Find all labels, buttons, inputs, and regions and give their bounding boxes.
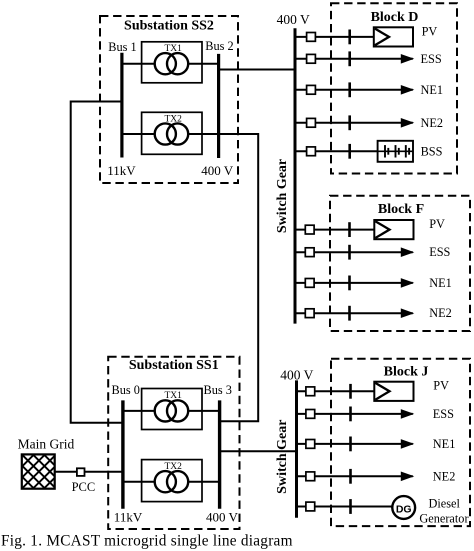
svg-text:Generator: Generator — [419, 512, 468, 526]
bus switchgear for Blocks D and F — [294, 28, 297, 323]
svg-text:PV: PV — [433, 379, 449, 393]
disconnect tick on feeder BSS — [348, 144, 351, 159]
wire Bus 3 to switchgear bus (Block J) — [220, 450, 297, 452]
bus Bus 0 — [121, 400, 124, 508]
diesel generator DG symbol — [392, 496, 415, 519]
load arrow NE1 — [401, 440, 413, 448]
bus Bus 3 — [218, 400, 221, 508]
PV source symbol — [374, 382, 413, 401]
load arrow NE1 — [401, 86, 413, 94]
svg-text:TX1: TX1 — [164, 44, 182, 54]
wire feeder ESS — [295, 251, 413, 253]
load arrow ESS — [401, 248, 413, 256]
svg-text:PV: PV — [429, 217, 445, 231]
wire feeder NE2 — [297, 475, 413, 477]
disconnect tick on feeder ESS — [349, 407, 352, 422]
wire feeder NE2 — [295, 312, 413, 314]
bus switchgear for Block J — [295, 380, 298, 517]
wire Main Grid to Bus 0 — [55, 471, 123, 473]
disconnect tick on feeder PV — [348, 30, 351, 45]
block J enclosure — [331, 359, 470, 526]
disconnect tick on feeder NE2 — [348, 115, 351, 130]
breaker square on feeder NE1 — [305, 279, 314, 288]
svg-text:TX2: TX2 — [164, 462, 182, 472]
disconnect tick on feeder NE1 — [349, 437, 352, 452]
wire feeder DG — [297, 506, 393, 508]
BSS battery symbol — [378, 141, 413, 162]
breaker square on feeder NE2 — [305, 309, 314, 318]
wire TX1 feeder through transformer — [123, 410, 220, 412]
bus Bus 1 — [120, 53, 123, 158]
svg-text:Fig. 1. MCAST microgrid single: Fig. 1. MCAST microgrid single line diag… — [1, 532, 293, 549]
wire feeder PV — [295, 36, 374, 38]
svg-text:Block D: Block D — [371, 10, 419, 25]
transformer TX1 — [142, 42, 202, 83]
transformer TX2 — [142, 460, 202, 502]
PV source symbol — [374, 220, 413, 239]
svg-text:400 V: 400 V — [280, 367, 313, 382]
wire TX2 feeder through transformer — [123, 481, 220, 483]
substation SS1 enclosure — [108, 357, 239, 529]
load arrow NE1 — [401, 279, 413, 287]
svg-text:NE2: NE2 — [421, 116, 444, 130]
wire feeder PV — [295, 229, 374, 231]
svg-text:TX1: TX1 — [164, 391, 182, 401]
load arrow ESS — [401, 410, 413, 418]
disconnect tick on feeder ESS — [348, 245, 351, 260]
load arrow NE2 — [401, 472, 413, 480]
svg-text:Main Grid: Main Grid — [18, 436, 75, 451]
breaker PCC square — [77, 468, 85, 476]
svg-text:BSS: BSS — [421, 144, 443, 158]
load arrow NE2 — [401, 309, 413, 317]
substation SS2 enclosure — [100, 16, 238, 183]
breaker square on feeder NE1 — [307, 85, 316, 94]
svg-text:Bus 2: Bus 2 — [205, 39, 233, 53]
breaker square on feeder NE2 — [307, 118, 316, 127]
wire feeder ESS — [297, 413, 413, 415]
transformer TX1 — [142, 389, 202, 430]
svg-text:11kV: 11kV — [114, 509, 143, 524]
breaker square on feeder PV — [305, 225, 314, 234]
disconnect tick on feeder ESS — [348, 51, 351, 66]
svg-text:Block F: Block F — [378, 202, 424, 217]
disconnect tick on feeder DG — [349, 499, 352, 514]
disconnect tick on feeder PV — [349, 384, 352, 399]
svg-text:Substation SS1: Substation SS1 — [129, 358, 219, 373]
disconnect tick on feeder NE2 — [349, 469, 352, 484]
svg-text:NE1: NE1 — [429, 276, 452, 290]
disconnect tick on feeder PV — [348, 222, 351, 237]
breaker square on feeder NE2 — [306, 472, 315, 481]
wire feeder PV — [297, 390, 375, 392]
svg-text:Bus 0: Bus 0 — [112, 383, 140, 397]
bus Bus 2 — [217, 54, 220, 158]
breaker square on feeder PV — [307, 33, 316, 42]
svg-text:ESS: ESS — [429, 245, 450, 259]
svg-text:NE1: NE1 — [421, 83, 444, 97]
breaker square on feeder PV — [306, 387, 315, 396]
disconnect tick on feeder NE1 — [348, 276, 351, 291]
block D enclosure — [331, 3, 457, 173]
svg-text:400 V: 400 V — [277, 12, 310, 27]
svg-text:ESS: ESS — [421, 52, 442, 66]
svg-text:Switch Gear: Switch Gear — [275, 159, 290, 233]
svg-text:TX2: TX2 — [164, 115, 182, 125]
svg-text:400 V: 400 V — [201, 163, 234, 178]
load arrow ESS — [401, 55, 413, 63]
svg-text:NE2: NE2 — [433, 469, 456, 483]
transformer TX2 — [142, 112, 202, 154]
svg-text:Diesel: Diesel — [429, 497, 461, 511]
svg-text:Bus 1: Bus 1 — [108, 40, 136, 54]
disconnect tick on feeder NE1 — [348, 82, 351, 97]
breaker square on feeder BSS — [307, 147, 316, 156]
svg-text:NE1: NE1 — [433, 437, 456, 451]
svg-text:DG: DG — [396, 504, 412, 516]
breaker square on feeder ESS — [307, 54, 316, 63]
breaker square on feeder DG — [306, 502, 315, 511]
wire Bus 1 to Bus 0 (left tie line) — [71, 102, 123, 423]
wire TX1 feeder through transformer — [122, 63, 219, 65]
breaker square on feeder ESS — [306, 410, 315, 419]
wire Bus 2 to Bus 3 (right tie line) — [219, 134, 259, 421]
wire feeder BSS — [295, 150, 378, 152]
breaker square on feeder NE1 — [306, 440, 315, 449]
svg-text:11kV: 11kV — [107, 163, 136, 178]
svg-text:Block J: Block J — [384, 365, 429, 380]
wire feeder NE1 — [295, 89, 413, 91]
breaker square on feeder ESS — [305, 248, 314, 257]
svg-text:Switch Gear: Switch Gear — [275, 420, 290, 494]
utility source Main Grid symbol (hatched square) — [0, 409, 144, 533]
svg-text:400 V: 400 V — [206, 509, 239, 524]
svg-text:NE2: NE2 — [429, 306, 452, 320]
disconnect tick on feeder NE2 — [348, 306, 351, 321]
wire feeder NE2 — [295, 122, 413, 124]
wire feeder NE1 — [295, 282, 413, 284]
PV source symbol — [374, 27, 413, 46]
svg-text:PV: PV — [422, 24, 438, 38]
svg-text:Substation SS2: Substation SS2 — [124, 18, 214, 33]
svg-text:Bus 3: Bus 3 — [204, 383, 232, 397]
block F enclosure — [330, 196, 470, 331]
wire TX2 feeder through transformer — [122, 133, 219, 135]
wire feeder ESS — [295, 58, 413, 60]
svg-text:ESS: ESS — [433, 407, 454, 421]
svg-text:PCC: PCC — [72, 480, 96, 494]
wire feeder NE1 — [297, 443, 413, 445]
load arrow NE2 — [401, 119, 413, 127]
wire Bus 2 to switchgear bus (Blocks D/F) — [219, 69, 295, 71]
